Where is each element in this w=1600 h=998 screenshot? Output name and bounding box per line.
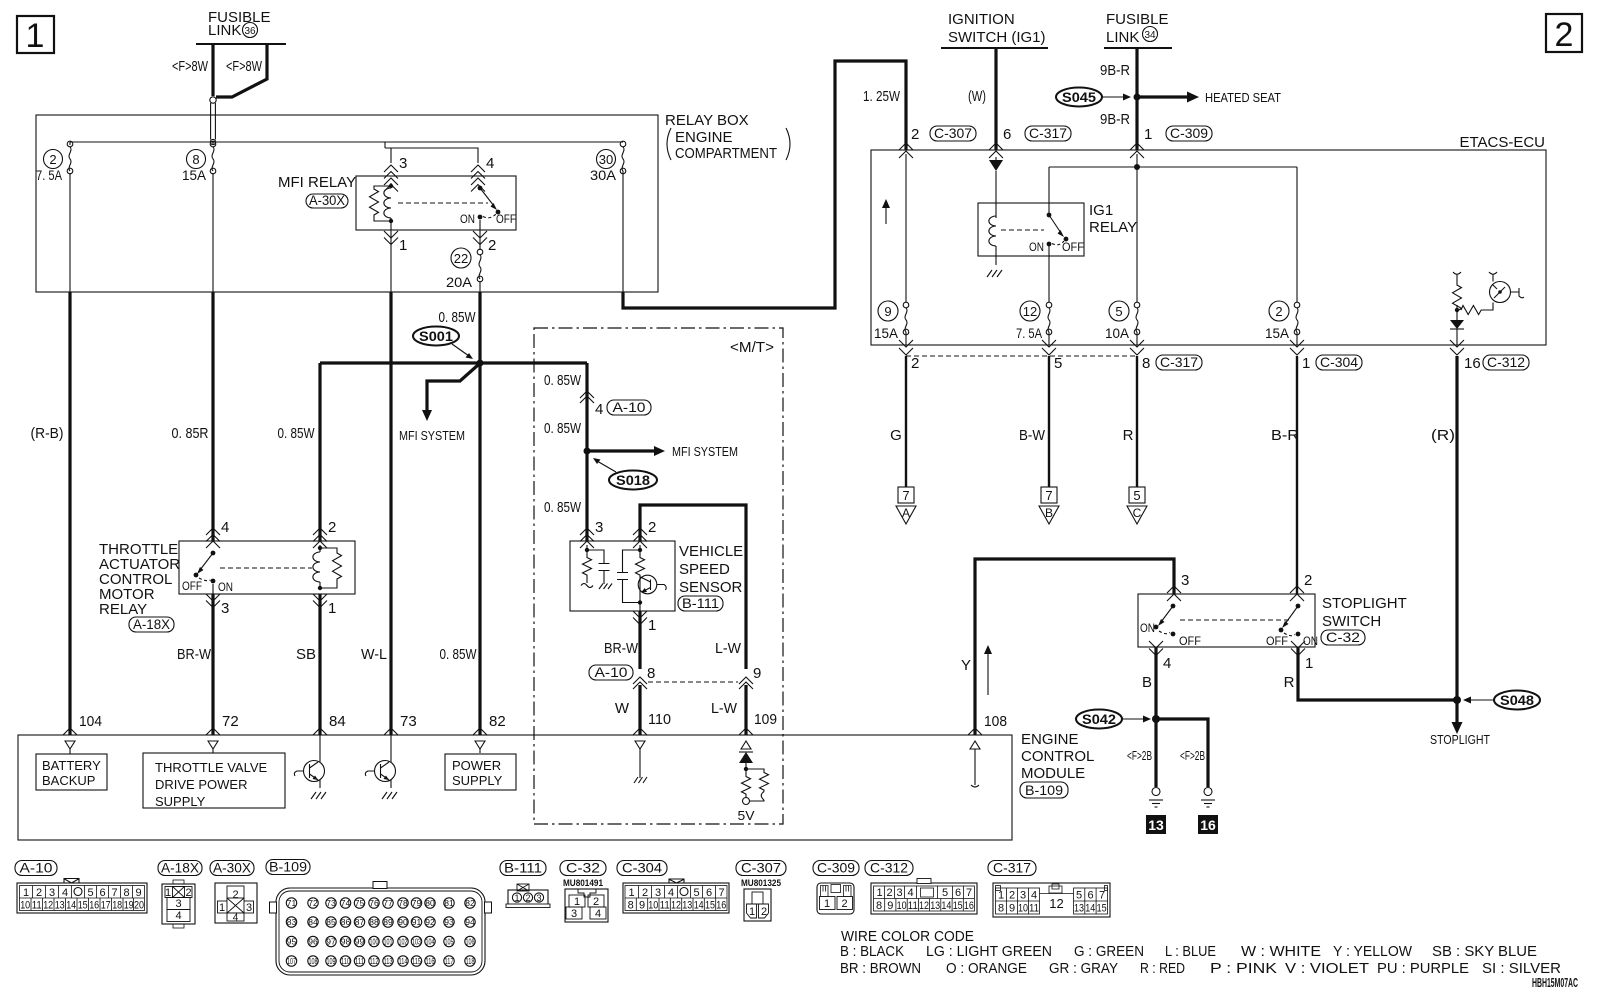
connector C-309 label (813, 860, 859, 876)
svg-text:7: 7 (111, 887, 117, 899)
svg-text:2: 2 (841, 898, 847, 910)
svg-text:97: 97 (326, 937, 336, 947)
svg-text:99: 99 (355, 937, 365, 947)
svg-text:12: 12 (671, 900, 681, 912)
svg-text:6: 6 (1003, 126, 1011, 143)
wire pin3 down to ECM 72 (212, 584, 214, 598)
splice S018 oval (593, 458, 657, 490)
ignition switch bar (941, 47, 1048, 49)
svg-text:V : VIOLET: V : VIOLET (1285, 960, 1369, 977)
svg-text:L-W: L-W (711, 700, 738, 717)
svg-text:(R-B): (R-B) (31, 425, 64, 442)
ECM pin 104 (63, 713, 102, 754)
A-10 label at lower break (589, 664, 633, 680)
svg-text:17: 17 (101, 900, 111, 912)
svg-text:72: 72 (222, 713, 239, 730)
svg-text:SPEED: SPEED (679, 561, 730, 578)
splice S042 oval (1076, 710, 1151, 729)
entry 6 C-317 (989, 125, 1071, 158)
svg-text:<F>2B: <F>2B (1180, 748, 1205, 763)
wire B-R from pin 1 to stoplight pin 2 (1296, 356, 1298, 594)
svg-text:77: 77 (383, 898, 393, 908)
svg-text:BATTERY: BATTERY (42, 758, 101, 773)
ground ref 13 (1146, 815, 1166, 834)
ECM pin 109 (739, 728, 753, 749)
branch wire from C-309 entry (1049, 154, 1297, 302)
svg-text:5V: 5V (738, 808, 755, 823)
svg-text:ETACS-ECU: ETACS-ECU (1459, 134, 1545, 151)
svg-text:IGNITION: IGNITION (948, 11, 1015, 28)
fusible link 34 bar (1104, 47, 1172, 49)
wire fusible link 34 down (1135, 48, 1138, 150)
svg-text:0. 85R: 0. 85R (172, 425, 209, 442)
svg-text:RELAY BOX: RELAY BOX (665, 112, 749, 129)
ECM pin 72 (206, 713, 239, 753)
fusible link 36 bar (196, 43, 286, 45)
svg-text:109: 109 (754, 711, 777, 728)
svg-text:C-317: C-317 (1160, 354, 1198, 370)
splice S048 oval (1463, 691, 1540, 710)
connector C-317 pinout (993, 883, 1110, 917)
svg-text:103: 103 (412, 938, 421, 947)
svg-text:1: 1 (23, 887, 29, 899)
svg-text:1: 1 (328, 600, 336, 617)
svg-text:GR : GRAY: GR : GRAY (1049, 960, 1118, 977)
svg-text:5: 5 (87, 887, 93, 899)
pin 1 C-304 (1302, 354, 1362, 372)
svg-text:16: 16 (1200, 817, 1216, 833)
svg-text:5: 5 (1054, 355, 1062, 372)
wire R-B vertical fuse2 to ECM 104 (69, 142, 71, 292)
svg-text:LG : LIGHT GREEN: LG : LIGHT GREEN (926, 943, 1052, 960)
svg-text:(R): (R) (1431, 427, 1455, 444)
svg-text:7: 7 (902, 488, 909, 503)
svg-text:A-18X: A-18X (133, 616, 171, 632)
ground ref 16 (1198, 815, 1218, 834)
svg-text:95: 95 (287, 937, 297, 947)
svg-text:C-317: C-317 (993, 860, 1031, 876)
svg-text:101: 101 (384, 938, 393, 947)
dashed link between A-10 pins (648, 681, 738, 683)
svg-text:THROTTLE VALVE: THROTTLE VALVE (155, 760, 268, 775)
svg-text:5: 5 (693, 887, 699, 899)
terminator 7-A (896, 487, 916, 524)
svg-text:3: 3 (571, 908, 577, 920)
svg-text:A-10: A-10 (595, 664, 628, 680)
svg-text:109: 109 (327, 957, 336, 966)
connector C-307 pinout (741, 878, 782, 921)
svg-text:4: 4 (486, 155, 494, 172)
svg-text:107: 107 (287, 957, 296, 966)
svg-text:114: 114 (399, 957, 408, 966)
svg-text:20A: 20A (446, 274, 473, 290)
svg-text:2: 2 (49, 152, 56, 167)
fuse 9 (15A) (874, 301, 909, 341)
stoplight switch 2 (1266, 604, 1318, 648)
svg-text:11: 11 (1029, 903, 1039, 915)
connector A-10 label (15, 860, 57, 876)
svg-text:MU801491: MU801491 (563, 878, 604, 889)
IG1 relay coil (989, 216, 996, 265)
svg-text:88: 88 (369, 917, 379, 927)
svg-text:12: 12 (1049, 896, 1063, 911)
svg-text:12: 12 (43, 900, 53, 912)
svg-text:2: 2 (1555, 16, 1574, 54)
wire VSS pin2 loop to L-W (640, 505, 746, 669)
fuse 2 (15A) (1265, 301, 1300, 341)
svg-text:<F>8W: <F>8W (172, 58, 209, 75)
svg-text:SB : SKY BLUE: SB : SKY BLUE (1432, 943, 1537, 960)
svg-text:14: 14 (1085, 903, 1095, 915)
svg-text:15A: 15A (1265, 325, 1290, 341)
svg-text:4: 4 (1031, 890, 1037, 902)
svg-text:HBH15M07AC: HBH15M07AC (1532, 975, 1578, 990)
wire ignition feed to IG1 coil (995, 171, 997, 218)
svg-text:OFF: OFF (1179, 634, 1201, 648)
svg-text:6: 6 (1087, 890, 1093, 902)
svg-text:2: 2 (593, 896, 599, 908)
terminator 5-C (1127, 487, 1147, 524)
svg-text:2: 2 (761, 906, 767, 918)
VSS internal pin2 branch: resistor, capacitor, transistor (617, 545, 666, 611)
svg-text:34: 34 (1144, 30, 1156, 41)
M/T condition dashed box (534, 328, 783, 824)
svg-text:13: 13 (1074, 903, 1084, 915)
wire 0.85W in MT down from S001 run (585, 363, 588, 541)
svg-text:1: 1 (876, 887, 882, 899)
svg-text:G: G (890, 427, 902, 444)
fuse 8 (15A) (182, 141, 216, 183)
wire BR-W VSS pin1 down (638, 611, 641, 669)
svg-text:2: 2 (1304, 572, 1312, 589)
svg-text:117: 117 (445, 957, 454, 966)
MFI relay A-30X box (356, 176, 516, 230)
ECM pin 82 (473, 713, 506, 753)
wire R from pin 1 to node (1298, 647, 1457, 700)
wire W-L from MFI pin1 down to ECM 73 (389, 292, 392, 735)
svg-text:1: 1 (1302, 355, 1310, 372)
wire S042 branch right (1156, 719, 1208, 787)
svg-text:STOPLIGHT: STOPLIGHT (1322, 595, 1407, 612)
svg-text:10: 10 (897, 900, 907, 912)
svg-text:S048: S048 (1500, 692, 1534, 708)
svg-text:A-30X: A-30X (213, 860, 252, 876)
svg-text:10: 10 (20, 900, 30, 912)
svg-text:0. 85W: 0. 85W (439, 309, 477, 326)
svg-text:LINK: LINK (1106, 29, 1139, 46)
svg-text:1: 1 (514, 893, 519, 903)
svg-text:1: 1 (648, 617, 656, 634)
svg-text:L : BLUE: L : BLUE (1165, 943, 1216, 960)
svg-text:11: 11 (32, 900, 42, 912)
pin 4 number and A-10 label (595, 399, 651, 418)
svg-text:R : RED: R : RED (1140, 960, 1185, 977)
svg-text:104: 104 (79, 713, 102, 730)
svg-text:36: 36 (244, 26, 256, 37)
svg-text:13: 13 (55, 900, 65, 912)
stoplight dashed link (1180, 619, 1290, 621)
svg-text:4: 4 (1163, 655, 1171, 672)
svg-text:9: 9 (753, 665, 761, 682)
fuse 22 (20A) (446, 248, 483, 290)
svg-text:22: 22 (454, 251, 468, 266)
svg-text:A-30X: A-30X (309, 192, 346, 208)
svg-text:W : WHITE: W : WHITE (1241, 943, 1321, 960)
svg-text:C: C (1133, 506, 1142, 520)
svg-text:5: 5 (1133, 488, 1140, 503)
svg-text:<M/T>: <M/T> (730, 339, 774, 356)
svg-text:9B-R: 9B-R (1100, 62, 1130, 79)
svg-text:7: 7 (1099, 890, 1105, 902)
svg-text:15: 15 (78, 900, 88, 912)
svg-text:73: 73 (400, 713, 417, 730)
svg-text:BR-W: BR-W (604, 640, 639, 657)
direction arrow inside ETACS left (882, 199, 890, 224)
svg-text:3: 3 (221, 600, 229, 617)
connector C-312 label (865, 860, 913, 876)
node S018 (584, 448, 591, 455)
relay box (engine compartment) outline (36, 115, 658, 292)
svg-text:2: 2 (911, 355, 919, 372)
svg-text:SENSOR: SENSOR (679, 579, 743, 596)
wire fusible link drop right bent (216, 44, 267, 97)
svg-text:W-L: W-L (361, 646, 387, 663)
svg-text:PU : PURPLE: PU : PURPLE (1377, 960, 1469, 977)
svg-text:0. 85W: 0. 85W (544, 420, 582, 437)
wire B from pin 4 (1154, 647, 1157, 787)
wire MFI system branch arrow (422, 365, 478, 421)
svg-text:82: 82 (489, 713, 506, 730)
svg-text:92: 92 (425, 917, 435, 927)
svg-text:2: 2 (328, 519, 336, 536)
svg-text:10: 10 (1018, 903, 1028, 915)
svg-text:A-18X: A-18X (161, 860, 200, 876)
node S048 (1453, 696, 1461, 704)
svg-text:116: 116 (426, 957, 435, 966)
bus wire in relay box (70, 141, 623, 143)
svg-text:1: 1 (749, 906, 755, 918)
svg-text:C-309: C-309 (817, 860, 855, 876)
fusible link 34 label (1106, 11, 1169, 46)
node S001 (477, 360, 484, 367)
wire R from pin 8 (1136, 356, 1138, 487)
svg-text:ENGINE: ENGINE (675, 129, 733, 146)
svg-text:93: 93 (444, 917, 454, 927)
svg-text:4: 4 (221, 519, 229, 536)
wire Y with arrow (975, 559, 1174, 735)
svg-text:73: 73 (326, 898, 336, 908)
svg-text:80: 80 (425, 898, 435, 908)
wire color code legend (840, 928, 1561, 977)
wire pin1 down to ECM 84 (318, 594, 321, 735)
svg-text:ENGINE: ENGINE (1021, 731, 1079, 748)
svg-text:14: 14 (694, 900, 704, 912)
MFI SYSTEM arrow right (587, 444, 738, 459)
MFI relay resistor parallel (370, 186, 392, 221)
svg-text:9: 9 (135, 887, 141, 899)
svg-text:FUSIBLE: FUSIBLE (1106, 11, 1169, 28)
svg-text:13: 13 (1148, 817, 1164, 833)
earth ground left (1149, 788, 1163, 808)
svg-text:BACKUP: BACKUP (42, 773, 95, 788)
svg-text:S018: S018 (616, 472, 650, 488)
svg-text:9: 9 (639, 900, 645, 912)
svg-text:B : BLACK: B : BLACK (840, 943, 904, 960)
IG1 relay dashed link (1001, 229, 1044, 231)
svg-text:113: 113 (384, 957, 393, 966)
svg-text:84: 84 (308, 917, 318, 927)
svg-text:4: 4 (668, 887, 674, 899)
svg-text:<F>8W: <F>8W (226, 58, 263, 75)
svg-text:POWER: POWER (452, 758, 501, 773)
svg-text:7: 7 (966, 887, 972, 899)
ECM pin 108 (968, 713, 1007, 787)
svg-text:7: 7 (1045, 488, 1052, 503)
svg-text:VEHICLE: VEHICLE (679, 543, 743, 560)
stoplight pin 3 chevrons (1167, 572, 1189, 601)
svg-text:30A: 30A (590, 167, 617, 183)
svg-text:8: 8 (998, 903, 1004, 915)
svg-text:ON: ON (1140, 621, 1155, 635)
svg-text:OFF: OFF (1062, 240, 1084, 254)
svg-text:1: 1 (574, 896, 580, 908)
svg-text:78: 78 (398, 898, 408, 908)
page number box 2 (1546, 14, 1582, 54)
svg-text:S045: S045 (1062, 89, 1096, 105)
MFI relay pin 4 chevrons (471, 165, 485, 172)
svg-text:9B-R: 9B-R (1100, 111, 1130, 128)
svg-text:0. 85W: 0. 85W (544, 499, 582, 516)
svg-text:DRIVE POWER: DRIVE POWER (155, 777, 247, 792)
throttle relay label (99, 541, 180, 632)
svg-text:B: B (1045, 506, 1053, 520)
stoplight switch box (1138, 594, 1315, 647)
IG1 relay box (978, 203, 1084, 256)
svg-text:3: 3 (655, 887, 661, 899)
svg-text:2: 2 (1009, 890, 1015, 902)
svg-text:3: 3 (175, 898, 181, 910)
svg-text:ON: ON (460, 212, 475, 226)
wire IG1 output to fuse 12 (1048, 246, 1050, 302)
svg-text:MU801325: MU801325 (741, 878, 782, 889)
svg-text:7: 7 (718, 887, 724, 899)
VSS label (678, 543, 743, 611)
VSS pin 2 chevrons (633, 528, 647, 535)
svg-text:7. 5A: 7. 5A (36, 167, 63, 183)
connector B-111 pinout (506, 884, 550, 908)
svg-text:3: 3 (246, 902, 252, 914)
svg-text:112: 112 (370, 957, 379, 966)
wire fuse30 down and across to right page (622, 171, 624, 292)
fusible link 36 label (208, 9, 271, 39)
throttle relay pin 3 chevrons (206, 594, 220, 601)
svg-text:B-W: B-W (1019, 427, 1046, 444)
wire pin2 down (479, 220, 481, 292)
wire 0.85R vertical fuse8 to throttle relay pin 4 (212, 142, 214, 292)
svg-text:2: 2 (911, 126, 919, 143)
svg-text:3: 3 (1020, 890, 1026, 902)
svg-text:14: 14 (66, 900, 76, 912)
svg-text:85: 85 (326, 917, 336, 927)
svg-text:O : ORANGE: O : ORANGE (946, 960, 1027, 977)
svg-text:A: A (902, 506, 910, 520)
svg-text:2: 2 (488, 237, 496, 254)
svg-text:3: 3 (399, 155, 407, 172)
svg-text:105: 105 (445, 938, 454, 947)
fuse 5 (10A) (1105, 301, 1140, 341)
IG1 relay label (1089, 202, 1137, 236)
earth ground right (1201, 788, 1215, 808)
svg-text:11: 11 (908, 900, 918, 912)
svg-text:83: 83 (287, 917, 297, 927)
connector C-307 label (736, 860, 786, 876)
throttle valve drive power supply box (143, 753, 285, 809)
svg-text:13: 13 (930, 900, 940, 912)
node S042 (1152, 715, 1160, 723)
svg-text:ON: ON (1029, 240, 1044, 254)
wire pin1 to box exit (390, 224, 392, 292)
svg-text:LINK: LINK (208, 22, 241, 39)
svg-text:1: 1 (399, 237, 407, 254)
svg-text:10: 10 (648, 900, 658, 912)
ECM pin 84 (313, 713, 346, 735)
wire ignition switch feed (W) (994, 48, 997, 150)
svg-text:C-317: C-317 (1029, 125, 1067, 141)
ECM pin 110 (633, 728, 647, 783)
svg-text:11: 11 (660, 900, 670, 912)
svg-text:75: 75 (355, 898, 365, 908)
VSS pin 3 chevrons (580, 528, 594, 535)
svg-text:2: 2 (525, 893, 530, 903)
svg-text:OFF: OFF (496, 212, 516, 226)
svg-text:L-W: L-W (715, 640, 742, 657)
svg-text:HEATED SEAT: HEATED SEAT (1205, 90, 1281, 105)
fusible link element (double line) (210, 97, 216, 145)
svg-text:6: 6 (99, 887, 105, 899)
diode at (R) output (1450, 320, 1464, 345)
connector C-32 pinout (563, 878, 608, 922)
svg-text:9: 9 (884, 304, 891, 319)
svg-text:ON: ON (218, 580, 233, 594)
svg-text:5: 5 (1076, 890, 1082, 902)
ignition switch label (948, 11, 1046, 46)
svg-text:2: 2 (36, 887, 42, 899)
power supply box (445, 754, 516, 790)
svg-text:MFI SYSTEM: MFI SYSTEM (399, 428, 465, 443)
vehicle speed sensor B-111 box (570, 541, 675, 611)
connector B-109 pinout (270, 882, 492, 976)
svg-text:108: 108 (984, 713, 1007, 730)
svg-text:16: 16 (964, 900, 974, 912)
svg-text:110: 110 (648, 711, 671, 728)
svg-text:12: 12 (919, 900, 929, 912)
page number box 1 (17, 16, 54, 55)
wire fusible link drop left (211, 44, 214, 96)
svg-text:0. 85W: 0. 85W (440, 646, 478, 663)
svg-text:8: 8 (1142, 355, 1150, 372)
splice S001 oval (413, 327, 473, 360)
svg-text:SUPPLY: SUPPLY (452, 773, 503, 788)
svg-text:C-307: C-307 (934, 125, 972, 141)
throttle relay resistor parallel (320, 548, 342, 588)
svg-text:89: 89 (383, 917, 393, 927)
connector C-312 pinout (871, 879, 977, 915)
ETACS-ECU box (871, 150, 1546, 345)
connector B-109 label (266, 859, 310, 875)
svg-text:3: 3 (49, 887, 55, 899)
diode on ignition feed (989, 157, 1003, 171)
svg-text:8: 8 (647, 665, 655, 682)
